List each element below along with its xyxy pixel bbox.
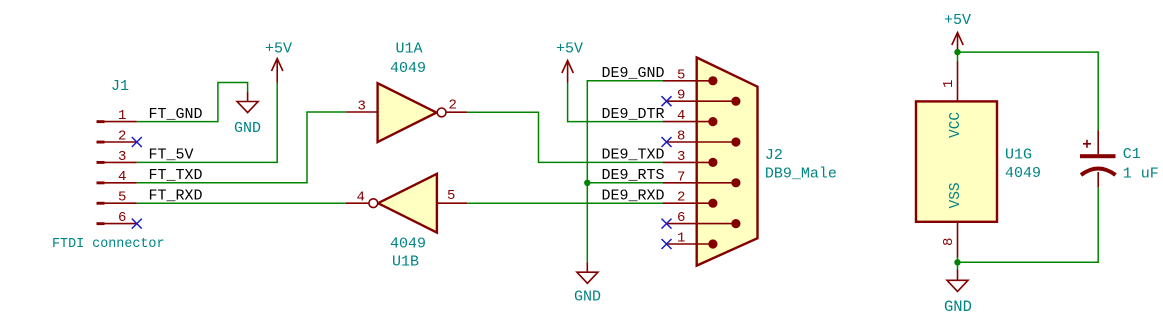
- net label DE9_DTR: [602, 106, 665, 123]
- svg-text:4049: 4049: [390, 60, 426, 77]
- C1 value label 1 uF: [1123, 166, 1159, 183]
- svg-text:+5V: +5V: [556, 41, 583, 58]
- svg-text:7: 7: [677, 169, 685, 185]
- no-connect X on J2 pin 6: [662, 219, 672, 229]
- svg-text:2: 2: [677, 190, 685, 206]
- svg-text:U1A: U1A: [396, 41, 423, 58]
- wire +5V to C1 top: [958, 52, 1099, 130]
- U1A pin 3 (input): [347, 99, 378, 115]
- J2 pin 4: [663, 108, 718, 126]
- J1 pin 1 (FT_GND): [97, 108, 137, 124]
- capacitor C1: [1080, 131, 1116, 188]
- pin name VSS: [948, 182, 964, 208]
- power symbol +5V (middle): [556, 41, 583, 83]
- svg-text:3: 3: [677, 149, 685, 165]
- wire FT_TXD to U1A input: [137, 112, 347, 183]
- no-connect X on J2 pin 9: [662, 96, 672, 106]
- svg-text:GND: GND: [944, 298, 972, 316]
- U1G pin 1 (VCC): [941, 61, 958, 101]
- U1B value label 4049: [390, 236, 426, 253]
- op-amp U1G power unit body: [916, 101, 997, 221]
- svg-text:DE9_GND: DE9_GND: [602, 65, 665, 82]
- svg-text:1: 1: [677, 231, 685, 247]
- net label FT_RXD: [149, 187, 203, 204]
- svg-text:GND: GND: [234, 120, 261, 137]
- J2 pin 7: [663, 169, 741, 187]
- J2 pin 8 (NC): [667, 129, 741, 147]
- ground symbol near J1: [234, 92, 261, 137]
- wire C1 bottom to GND junction: [958, 188, 1099, 263]
- svg-text:5: 5: [677, 67, 685, 83]
- U1G value label 4049: [1005, 165, 1041, 182]
- svg-text:1: 1: [941, 80, 957, 88]
- wire pin8 junction to GND: [957, 262, 959, 269]
- svg-text:FT_TXD: FT_TXD: [149, 167, 203, 184]
- U1A reference label: [396, 41, 423, 58]
- J2 pin 3: [663, 149, 718, 167]
- net label DE9_RTS: [602, 167, 665, 184]
- svg-text:8: 8: [677, 129, 685, 145]
- net label DE9_TXD: [602, 147, 665, 164]
- svg-text:4: 4: [357, 190, 365, 206]
- wire U1A output to DE9_TXD: [467, 112, 663, 162]
- J2 pin 6 (NC): [667, 210, 741, 228]
- svg-text:4049: 4049: [390, 236, 426, 253]
- svg-text:U1G: U1G: [1005, 147, 1032, 164]
- wire FT_RXD to U1B output: [137, 202, 346, 204]
- svg-text:DB9_Male: DB9_Male: [765, 166, 837, 183]
- svg-text:DE9_DTR: DE9_DTR: [602, 106, 665, 123]
- svg-text:5: 5: [118, 190, 126, 206]
- U1G pin 8 (VSS): [941, 222, 958, 258]
- svg-text:4: 4: [118, 169, 126, 185]
- wire +5V anchor to pin 1: [957, 52, 959, 61]
- U1A value label 4049: [390, 60, 426, 77]
- svg-text:U1B: U1B: [392, 254, 419, 271]
- net label DE9_GND: [602, 65, 665, 82]
- svg-text:J2: J2: [765, 147, 783, 164]
- svg-text:6: 6: [677, 210, 685, 226]
- net label FT_GND: [149, 106, 203, 123]
- U1B pin 5 (input): [437, 188, 467, 204]
- net label FT_TXD: [149, 167, 203, 184]
- U1B pin 4 (output): [346, 190, 369, 206]
- wire FT_GND to GND symbol: [137, 83, 248, 122]
- power symbol +5V (left): [265, 41, 292, 83]
- connector J1 reference label: [111, 78, 129, 95]
- svg-text:1: 1: [118, 108, 126, 124]
- no-connect X on J2 pin 8: [662, 137, 672, 147]
- J2 reference label: [765, 147, 783, 164]
- pin name VCC: [948, 112, 964, 138]
- svg-text:3: 3: [118, 149, 126, 165]
- op-amp U1A inverter (4049): [378, 83, 446, 142]
- no-connect X on J2 pin 1: [662, 239, 672, 249]
- svg-text:C1: C1: [1123, 146, 1141, 163]
- J1 pin 4 (FT_TXD): [97, 169, 137, 185]
- net label DE9_RXD: [602, 187, 665, 204]
- J2 pin 9 (NC): [667, 88, 741, 106]
- U1B reference label: [392, 254, 419, 271]
- svg-text:VSS: VSS: [948, 182, 964, 208]
- J2 pin 5: [663, 67, 718, 85]
- FTDI connector caption: [52, 237, 165, 252]
- U1A pin 2 (output): [446, 98, 467, 114]
- svg-text:FTDI connector: FTDI connector: [52, 237, 165, 252]
- node junction at U1G pin 8: [954, 259, 960, 265]
- svg-text:+5V: +5V: [265, 41, 292, 58]
- J1 pin 2 (NC): [97, 128, 137, 144]
- svg-text:2: 2: [449, 98, 457, 114]
- node junction at U1G pin 1: [954, 49, 960, 55]
- svg-text:+5V: +5V: [944, 12, 971, 29]
- transistor-free U1B inverter (4049) body: [369, 174, 437, 233]
- junction on DE9_RTS node: [584, 180, 590, 186]
- C1 reference label: [1123, 146, 1141, 163]
- svg-text:DE9_TXD: DE9_TXD: [602, 147, 665, 164]
- wire pin 8 to junction: [957, 257, 959, 262]
- svg-text:FT_RXD: FT_RXD: [149, 187, 203, 204]
- J1 pin 6 (NC): [97, 210, 137, 226]
- net label FT_5V: [149, 147, 194, 164]
- svg-text:5: 5: [447, 188, 455, 204]
- svg-text:VCC: VCC: [948, 112, 964, 138]
- J1 pin 5 (FT_RXD): [97, 190, 137, 206]
- no-connect X on J1 pin 6: [132, 219, 142, 229]
- svg-text:8: 8: [941, 238, 957, 246]
- svg-text:4049: 4049: [1005, 165, 1041, 182]
- ground symbol (middle): [574, 262, 601, 305]
- svg-text:9: 9: [677, 88, 685, 104]
- no-connect X on J1 pin 2: [132, 137, 142, 147]
- power symbol +5V (right): [944, 12, 971, 52]
- J1 pin 3 (FT_5V): [97, 149, 137, 165]
- wire junction to DE9_RTS: [587, 182, 663, 184]
- J2 pin 1 (NC): [667, 231, 718, 249]
- ground symbol (right): [944, 270, 972, 317]
- svg-text:6: 6: [118, 210, 126, 226]
- wire FT_5V to +5V symbol: [137, 83, 277, 163]
- svg-text:2: 2: [118, 128, 126, 144]
- svg-text:FT_GND: FT_GND: [149, 106, 203, 123]
- svg-text:J1: J1: [111, 78, 129, 95]
- J2 pin 2: [663, 190, 718, 208]
- U1G reference label: [1005, 147, 1032, 164]
- wire U1B input to DE9_RXD: [467, 202, 663, 204]
- svg-text:3: 3: [358, 99, 366, 115]
- svg-text:DE9_RTS: DE9_RTS: [602, 167, 665, 184]
- connector J2 DB9_Male body: [697, 58, 758, 266]
- svg-text:4: 4: [677, 108, 685, 124]
- svg-text:DE9_RXD: DE9_RXD: [602, 187, 665, 204]
- wire DE9_GND to GND (vertical bus): [587, 81, 663, 262]
- wire +5V to DE9_DTR: [568, 83, 663, 122]
- svg-text:1 uF: 1 uF: [1123, 166, 1159, 183]
- svg-text:GND: GND: [574, 289, 601, 306]
- svg-text:FT_5V: FT_5V: [149, 147, 194, 164]
- J2 value label DB9_Male: [765, 166, 837, 183]
